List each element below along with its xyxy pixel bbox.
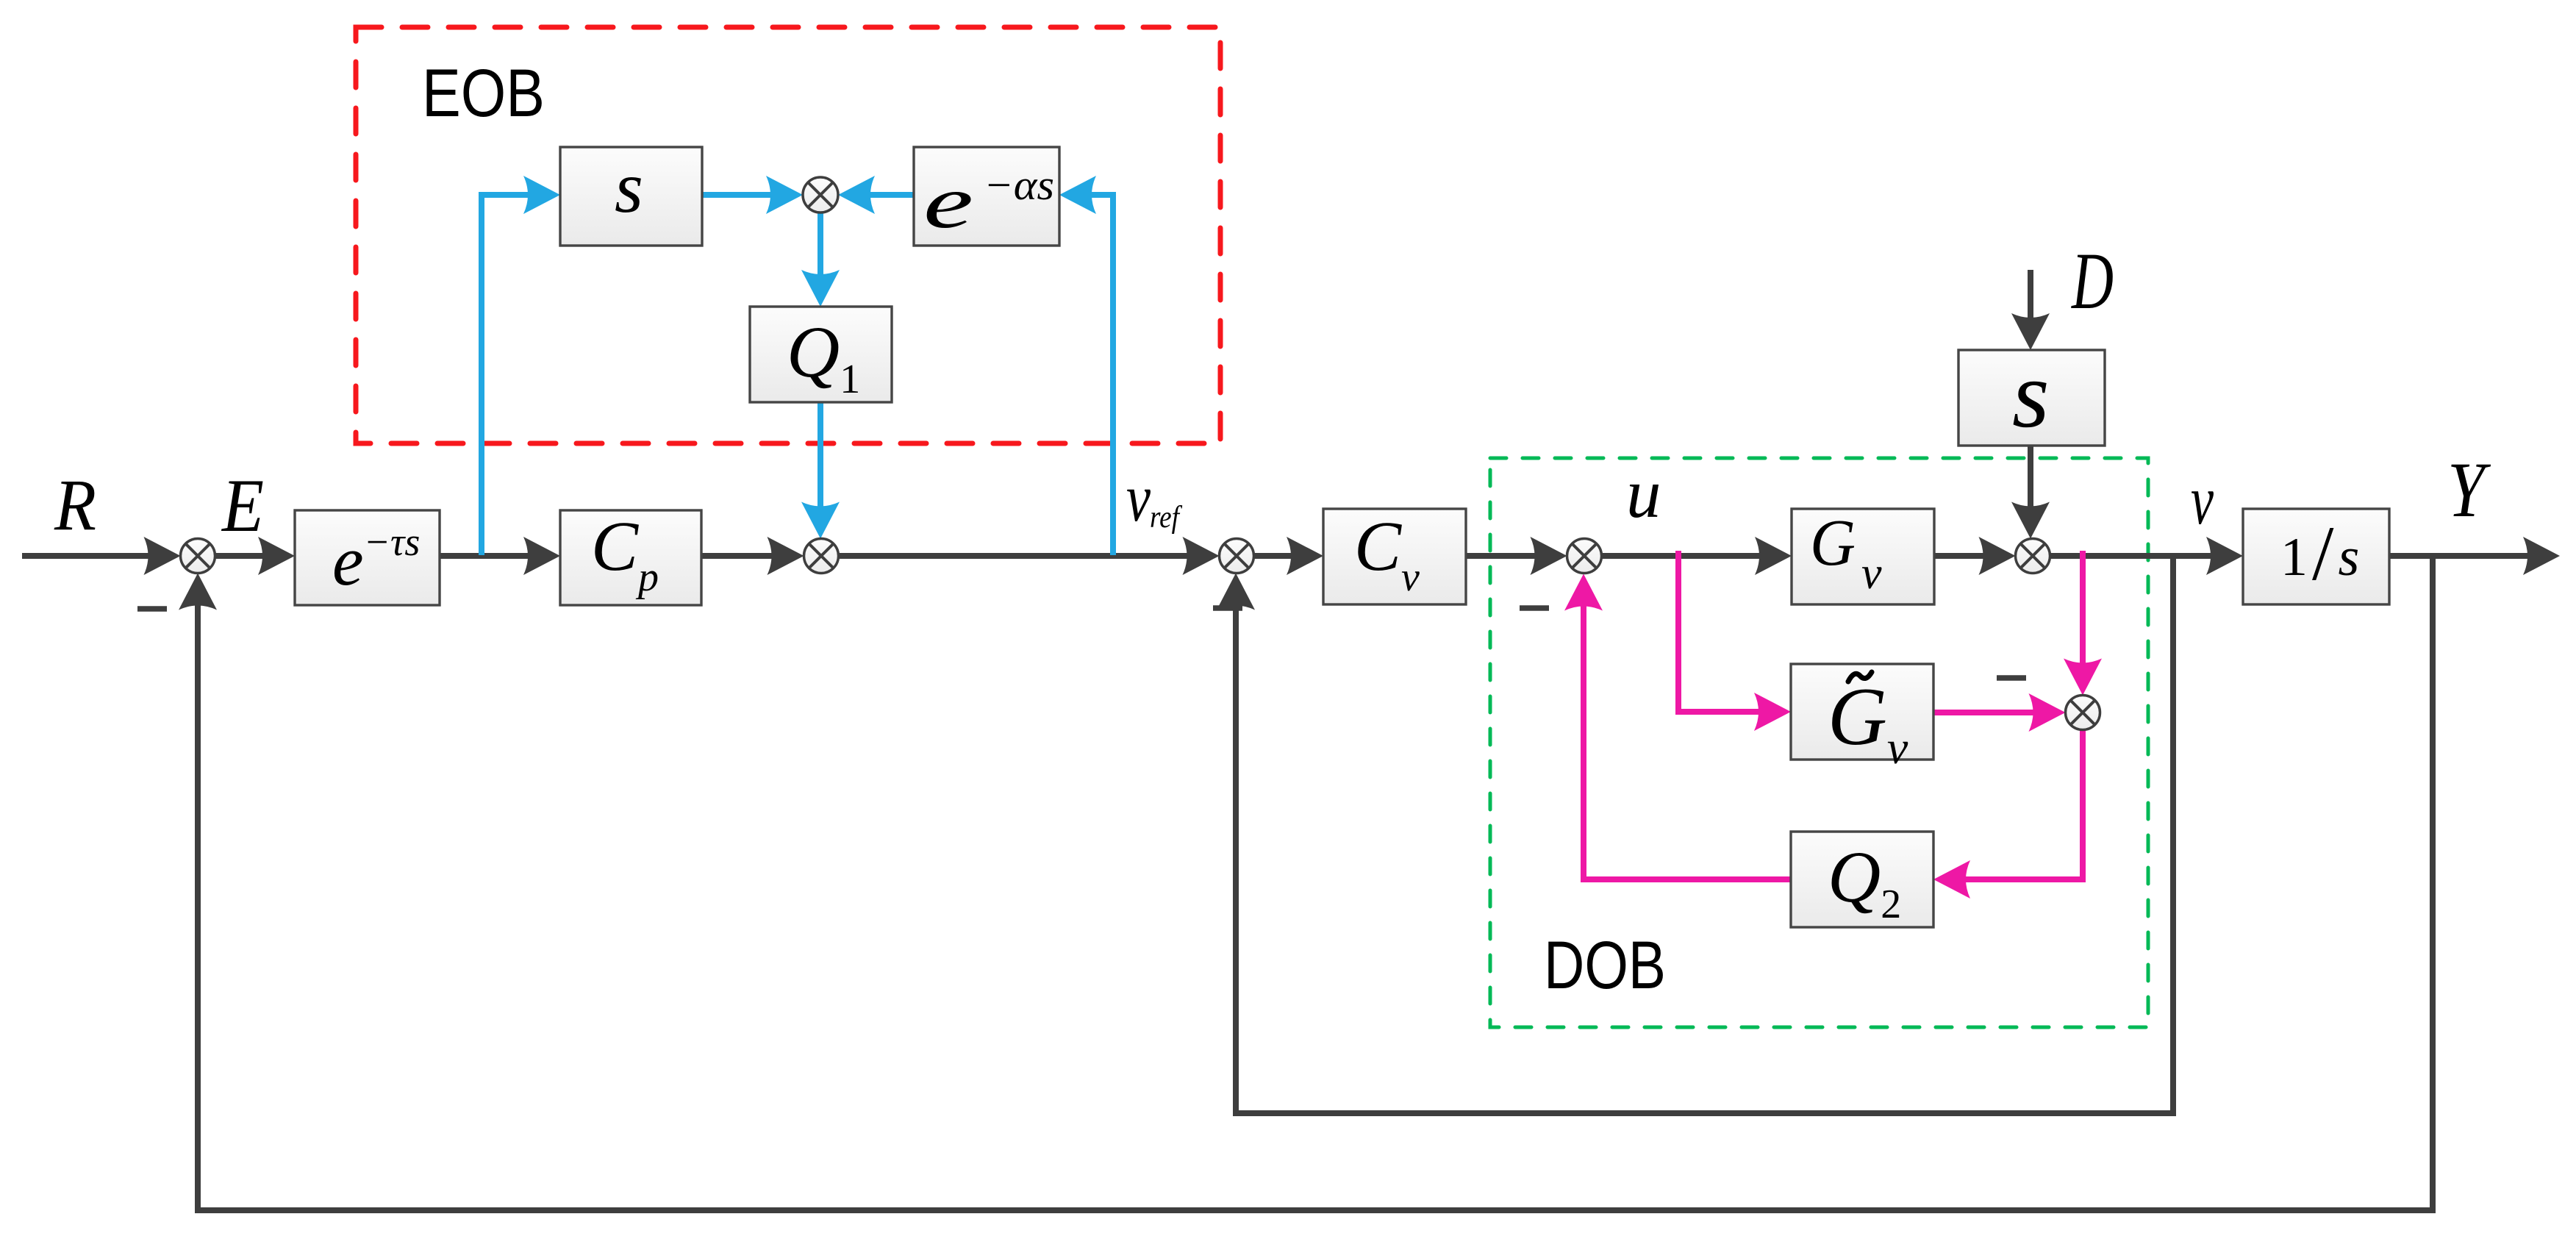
magenta arrow into S6: [2029, 693, 2066, 732]
blue wire vref to e^-as: [1084, 195, 1113, 555]
magenta arrow into Gv-model: [1754, 693, 1791, 731]
arrow into sum S1: [144, 537, 181, 575]
block s right: [1958, 350, 2105, 446]
magenta wire Q2 to S4: [1584, 599, 1791, 879]
sum EOB: [803, 177, 838, 213]
wire S2 to S3: [839, 553, 1195, 559]
inner feedback wire: [1236, 556, 2173, 1113]
arrow into delay block: [258, 537, 295, 575]
wire Gv to S5: [1934, 553, 1990, 559]
arrow into sum S5: [1979, 537, 2016, 575]
tilde of Gv-model: [1848, 672, 1872, 682]
blue wire Q1 to S2: [817, 402, 823, 513]
arrow into Cv: [1287, 537, 1323, 575]
sum S2: [804, 539, 839, 574]
magenta arrow into Q2 right: [1933, 860, 1970, 899]
arrow into integrator: [2206, 537, 2243, 575]
wire integrator to output Y: [2389, 553, 2535, 559]
block Cv: [1323, 509, 1466, 604]
block integrator 1/s: [2243, 509, 2389, 604]
wire delay to Cp: [440, 553, 535, 559]
arrow into sum S2: [768, 537, 804, 575]
magenta arrow into S6 from top: [2064, 659, 2102, 696]
magenta arrow into S4 from bottom: [1564, 574, 1603, 611]
minus at S4: [1520, 605, 1549, 611]
magenta branch u to Gv-model: [1678, 551, 1766, 712]
sum S1: [181, 539, 215, 574]
blue arrow from e^-as into EOB sum: [838, 176, 875, 214]
wire s block to S5: [2028, 446, 2033, 513]
svg-text:Y: Y: [2447, 447, 2491, 534]
blue arrow into s block: [523, 176, 560, 214]
svg-text:ref: ref: [1150, 501, 1183, 535]
block Q2: [1791, 832, 1933, 927]
arrow inner feedback into S3: [1217, 574, 1255, 610]
magenta wire Gv-model to S6: [1933, 710, 2040, 715]
svg-text:R: R: [54, 464, 96, 546]
block Gv: [1792, 509, 1934, 604]
minus at S1: [137, 606, 167, 612]
arrow into sum S3: [1183, 537, 1220, 575]
magenta branch to S6 top: [2080, 551, 2086, 670]
arrow into S5 from top: [2011, 502, 2050, 539]
arrow output Y: [2523, 537, 2560, 575]
magenta wire S6 to Q2: [1958, 730, 2083, 880]
wire Cp to S2: [701, 553, 779, 559]
svg-text:v: v: [1126, 460, 1151, 535]
svg-text:DOB: DOB: [1544, 928, 1666, 1003]
arrow into Cp: [523, 537, 560, 575]
DOB dashed box: [1490, 458, 2148, 1027]
wire S5 to integrator: [2050, 553, 2219, 559]
blue wire s block to EOB sum: [702, 192, 778, 198]
wire S3 to Cv: [1254, 553, 1299, 559]
svg-text:u: u: [1626, 454, 1661, 532]
block e^-as: [914, 147, 1059, 246]
blue arrow into S2 from top: [801, 502, 840, 539]
block s EOB: [560, 147, 702, 246]
block Gv-model: [1791, 664, 1933, 760]
block Cp: [560, 510, 701, 605]
minus at S6: [1997, 675, 2026, 681]
svg-text:D: D: [2071, 236, 2114, 326]
wire R input: [22, 553, 155, 559]
minus at S3: [1213, 605, 1242, 611]
blue arrow into EOB sum: [766, 176, 803, 214]
wire D disturbance: [2028, 270, 2033, 325]
block Q1: [750, 307, 892, 402]
arrow D into s block: [2011, 313, 2050, 350]
blue arrow into Q1: [801, 270, 840, 307]
wire S1 to delay block: [215, 553, 271, 559]
outer feedback wire: [198, 556, 2433, 1210]
sum S6: [2066, 696, 2100, 730]
blue wire e^-as to EOB sum: [863, 192, 914, 198]
block delay e^-ts: [295, 510, 440, 605]
svg-text:v: v: [2191, 461, 2214, 539]
svg-text:E: E: [221, 464, 264, 548]
arrow outer feedback into S1: [179, 574, 217, 610]
blue branch to s block: [482, 195, 535, 555]
sum S4: [1567, 539, 1602, 574]
svg-text:EOB: EOB: [422, 56, 545, 131]
svg-text:s: s: [615, 146, 643, 228]
arrow into Gv: [1755, 537, 1792, 575]
wire Cv to S4: [1466, 553, 1542, 559]
blue wire EOB sum to Q1: [817, 212, 823, 282]
svg-text:s: s: [2012, 342, 2050, 448]
sum S5: [2016, 539, 2050, 574]
arrow into sum S4: [1531, 537, 1567, 575]
blue arrow into e^-as right: [1059, 176, 1096, 214]
sum S3: [1220, 539, 1254, 574]
wire S4 to Gv: [1602, 553, 1767, 559]
EOB dashed box: [356, 27, 1220, 443]
